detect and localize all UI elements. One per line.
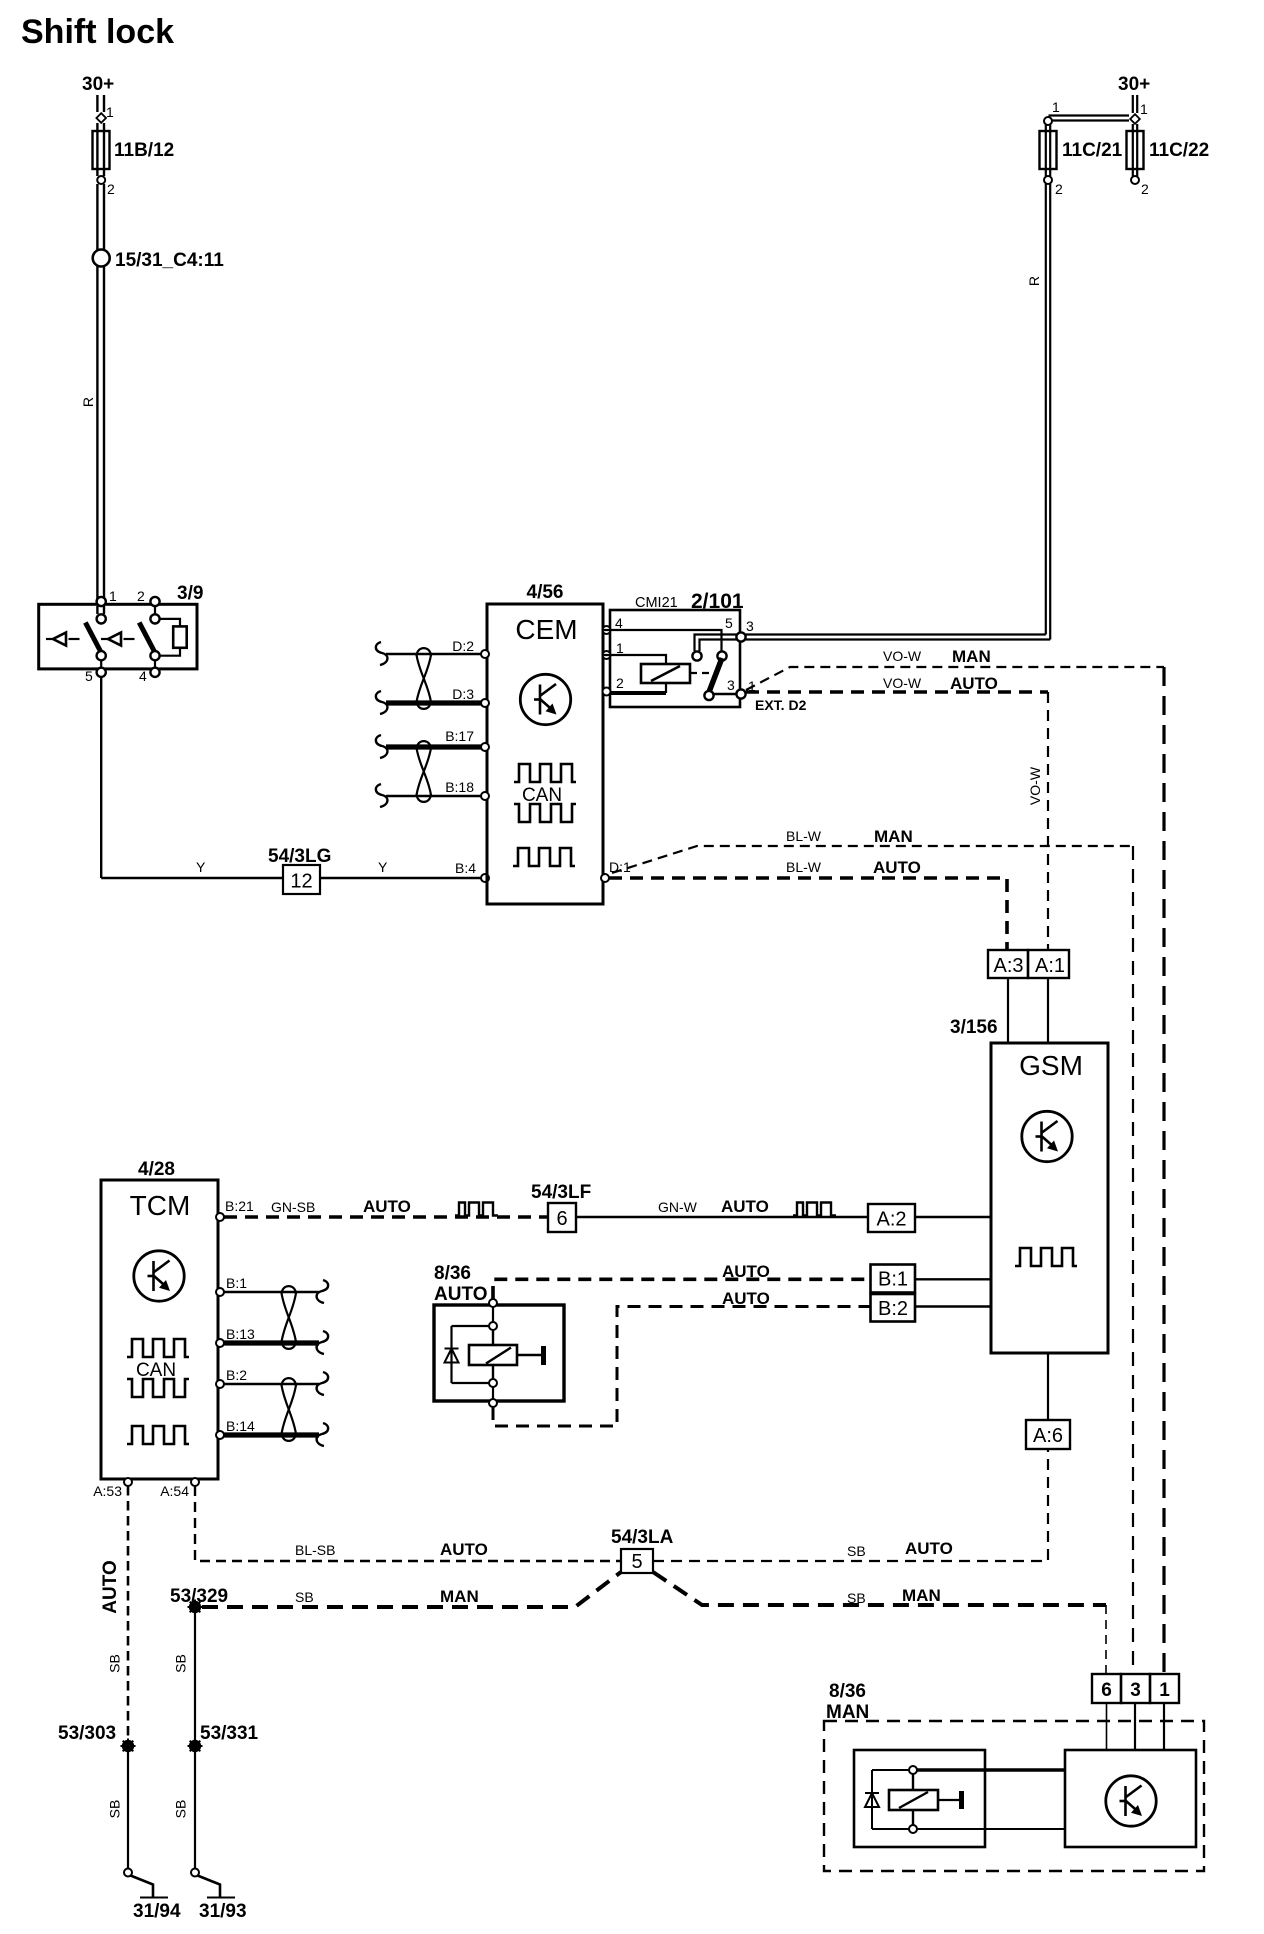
connector pin 1: [1150, 1674, 1179, 1703]
TCM pin B:2: [216, 1380, 224, 1388]
svg-text:4: 4: [139, 668, 147, 684]
svg-text:AUTO: AUTO: [721, 1197, 769, 1216]
svg-text:A:54: A:54: [160, 1483, 189, 1499]
wire B:18 twisted: [386, 795, 481, 798]
wire VO-W MAN vertical heavy: [1162, 667, 1165, 1674]
splice 53/331: [188, 1739, 203, 1754]
wire SB to ground right: [194, 1752, 196, 1869]
svg-text:12: 12: [290, 871, 312, 893]
relay coil 2/101: [641, 664, 690, 683]
plunger 8/36 MAN: [938, 1799, 959, 1801]
wire B:17 twisted thick: [386, 744, 481, 749]
relay box 8/36 MAN: [854, 1750, 985, 1847]
svg-text:6: 6: [556, 1208, 567, 1230]
coil bracket lower thick: [610, 691, 666, 695]
svg-text:A:1: A:1: [1035, 955, 1065, 977]
svg-text:AUTO: AUTO: [722, 1262, 770, 1281]
wire SB to ground left: [127, 1752, 129, 1869]
wire pin1 to solenoid: [1163, 1703, 1165, 1750]
svg-text:6: 6: [1101, 1680, 1112, 1701]
svg-text:11C/22: 11C/22: [1149, 140, 1209, 161]
wire GSM A:6 lead: [1047, 1353, 1049, 1420]
wire pin5 down: [100, 677, 102, 878]
CEM pin 1 junction: [603, 651, 611, 659]
wire fuse to splice: [97, 184, 104, 250]
connector B:2: [871, 1294, 916, 1322]
wire SB AUTO to A:6 dashed: [653, 1449, 1048, 1561]
pin 1 of 3/9: [97, 597, 106, 606]
TCM K symbol: [134, 1251, 184, 1301]
svg-text:2: 2: [137, 588, 145, 604]
CEM pin D:3: [481, 699, 489, 707]
svg-text:8/36: 8/36: [829, 1681, 866, 1702]
CEM pin 4 junction: [603, 626, 611, 634]
svg-text:D:2: D:2: [452, 638, 474, 654]
switch arm right 3/9: [139, 623, 155, 653]
svg-text:CMI21: CMI21: [635, 595, 678, 611]
wire MAN down to connector 6: [1105, 1605, 1107, 1674]
ground 31/93: [191, 1869, 235, 1898]
wire D:3 twisted thick: [386, 700, 481, 705]
connector A:3: [988, 950, 1028, 978]
svg-text:R: R: [1026, 276, 1042, 286]
TCM pin B:14: [216, 1431, 224, 1439]
rest contact circle: [692, 651, 701, 660]
fuse 11C/21: [1046, 125, 1050, 131]
svg-text:B:2: B:2: [226, 1367, 247, 1383]
wire A:3 to GSM: [1007, 978, 1009, 1043]
svg-text:AUTO: AUTO: [873, 858, 921, 877]
svg-text:R: R: [80, 397, 96, 407]
svg-text:A:2: A:2: [876, 1209, 906, 1231]
svg-text:BL-W: BL-W: [786, 828, 822, 844]
svg-text:TCM: TCM: [130, 1190, 191, 1221]
CEM pin B:18: [481, 792, 489, 800]
wire A:1 to GSM: [1047, 978, 1049, 1043]
contact lower left 3/9: [97, 651, 106, 660]
svg-text:B:1: B:1: [878, 1269, 908, 1291]
wire double horizontal 2/101 pin3 to R: [745, 635, 1050, 640]
relay coil 8/36 MAN: [912, 1774, 914, 1825]
svg-text:53/303: 53/303: [58, 1723, 116, 1744]
svg-text:15/31_C4:11: 15/31_C4:11: [115, 250, 224, 271]
svg-text:GN-W: GN-W: [658, 1199, 698, 1215]
CEM pin D:2: [481, 650, 489, 658]
svg-text:1: 1: [109, 588, 117, 604]
wire A:53 AUTO dashed down: [127, 1486, 130, 1740]
connector pin 6: [1092, 1674, 1121, 1703]
wire SB MAN dashed heavy right: [653, 1572, 1106, 1605]
svg-text:MAN: MAN: [902, 1586, 941, 1605]
splice 15/31_C4:11: [93, 250, 110, 267]
wire GN-W AUTO solid: [576, 1216, 868, 1218]
terminal 1 fuse 11C/21: [1044, 117, 1052, 125]
svg-text:2: 2: [616, 675, 624, 691]
relay coil 8/36 AUTO: [469, 1345, 517, 1365]
svg-text:3/156: 3/156: [950, 1017, 998, 1038]
connector A:1: [1028, 950, 1069, 978]
svg-text:GN-SB: GN-SB: [271, 1199, 315, 1215]
wire pin4 to switch top: [603, 630, 722, 651]
wire AUTO loop to B:2 dashed heavy: [493, 1307, 871, 1427]
terminal 2 fuse 11C/22: [1133, 169, 1137, 176]
pin 5 of 3/9: [100, 660, 102, 668]
contact upper right 3/9: [150, 614, 159, 623]
TCM pin A:53: [124, 1478, 132, 1486]
svg-text:4/28: 4/28: [138, 1159, 175, 1180]
wire GSM B:2 lead: [915, 1305, 991, 1307]
svg-text:Y: Y: [378, 859, 388, 875]
wire R right vertical double: [1046, 184, 1050, 640]
switch arm left 3/9: [85, 623, 101, 653]
2/101 right terminal 1 EXT. D2: [736, 689, 745, 698]
svg-text:AUTO: AUTO: [950, 674, 998, 693]
svg-text:2: 2: [1141, 181, 1149, 197]
svg-text:1: 1: [1052, 99, 1060, 115]
actuator arrow left: [46, 638, 53, 640]
TCM pin B:1: [216, 1288, 224, 1296]
svg-text:VO-W: VO-W: [883, 675, 922, 691]
wire relay to K box top thick: [917, 1768, 1065, 1771]
svg-text:A:6: A:6: [1033, 1425, 1063, 1447]
CEM pin B:17: [481, 743, 489, 751]
connector A:2: [868, 1204, 915, 1232]
svg-text:3: 3: [1130, 1680, 1141, 1701]
wire Y to CEM B:4: [320, 877, 481, 879]
svg-text:8/36: 8/36: [434, 1263, 471, 1284]
svg-text:54/3LF: 54/3LF: [531, 1182, 591, 1203]
svg-text:SB: SB: [847, 1590, 866, 1606]
svg-text:5: 5: [725, 615, 733, 631]
svg-text:2: 2: [107, 181, 115, 197]
svg-text:D:3: D:3: [452, 686, 474, 702]
terminal 2 of fuse 11B/12: [97, 169, 104, 176]
svg-text:VO-W: VO-W: [1027, 766, 1043, 805]
svg-text:3: 3: [727, 677, 735, 693]
svg-text:1: 1: [106, 104, 114, 120]
actuator arrow right: [101, 638, 108, 640]
svg-text:B:4: B:4: [455, 860, 476, 876]
svg-text:30+: 30+: [82, 74, 114, 95]
TCM pin B:21: [216, 1213, 224, 1221]
terminal 1 of fuse 11B/12: [96, 113, 106, 123]
svg-text:SB: SB: [295, 1589, 314, 1605]
svg-text:MAN: MAN: [874, 827, 913, 846]
pin B:4 terminal: [481, 874, 489, 882]
wire AUTO to B:1 dashed heavy: [493, 1279, 871, 1299]
TCM pin A:54: [191, 1478, 199, 1486]
svg-text:BL-SB: BL-SB: [295, 1542, 335, 1558]
connector pin 3: [1121, 1674, 1150, 1703]
relay terminals 8/36 MAN: [909, 1766, 917, 1774]
svg-text:3/9: 3/9: [177, 583, 203, 604]
svg-text:54/3LG: 54/3LG: [268, 846, 331, 867]
horizontal double wire to 11C/21: [1049, 116, 1130, 121]
pin 2 of 3/9: [150, 597, 159, 606]
wire B:14 twisted thick: [224, 1432, 319, 1437]
wire GSM A:2 lead: [915, 1216, 991, 1218]
svg-text:AUTO: AUTO: [363, 1197, 411, 1216]
svg-text:4/56: 4/56: [527, 582, 564, 603]
svg-text:B:13: B:13: [226, 1326, 255, 1342]
svg-text:SB: SB: [107, 1800, 123, 1819]
svg-text:3: 3: [746, 618, 754, 634]
pin 4 of 3/9: [154, 660, 156, 668]
coil bracket upper: [603, 655, 666, 693]
rest contact double wire from pin5: [695, 635, 741, 652]
svg-text:1: 1: [616, 640, 624, 656]
svg-text:B:1: B:1: [226, 1275, 247, 1291]
K symbol 8/36 MAN: [1106, 1776, 1156, 1826]
CEM K symbol: [520, 674, 570, 724]
svg-text:Shift lock: Shift lock: [21, 13, 174, 51]
wire B:1 twisted: [224, 1291, 319, 1294]
wire BL-W MAN vertical: [1132, 846, 1134, 1674]
svg-text:B:18: B:18: [445, 779, 474, 795]
switch lower contact: [704, 691, 713, 700]
K box 8/36 MAN: [1065, 1750, 1196, 1847]
wire GN-SB AUTO dashed: [224, 1215, 548, 1219]
svg-text:A:53: A:53: [93, 1483, 122, 1499]
svg-text:B:14: B:14: [226, 1418, 255, 1434]
control module CEM 4/56: [487, 604, 603, 904]
terminal 1 fuse 11C/22: [1130, 114, 1140, 124]
wire BL-W MAN dashed: [612, 846, 1133, 873]
svg-text:MAN: MAN: [440, 1587, 479, 1606]
svg-text:AUTO: AUTO: [100, 1560, 121, 1613]
svg-text:BL-W: BL-W: [786, 859, 822, 875]
wire pin1 to contact: [97, 606, 104, 614]
svg-text:1: 1: [1159, 1680, 1170, 1701]
svg-text:GSM: GSM: [1019, 1050, 1083, 1081]
svg-text:AUTO: AUTO: [722, 1289, 770, 1308]
connector A:6: [1026, 1420, 1070, 1449]
wire Y horizontal to splice 54/3LG: [101, 877, 283, 879]
diode branch 8/36 AUTO: [452, 1326, 490, 1383]
svg-text:AUTO: AUTO: [905, 1539, 953, 1558]
svg-text:31/93: 31/93: [199, 1901, 247, 1922]
svg-text:11C/21: 11C/21: [1062, 140, 1123, 161]
diode branch 8/36 MAN: [872, 1770, 909, 1829]
moving contact circle: [717, 651, 726, 660]
CEM pin 2 junction: [603, 688, 611, 696]
CEM CAN waves: [514, 764, 576, 782]
wire GSM B:1 lead: [915, 1278, 991, 1280]
svg-text:A:3: A:3: [993, 955, 1023, 977]
wire pin6 to solenoid: [1106, 1703, 1108, 1750]
wire pin2 to contact: [154, 605, 156, 615]
connector B:1: [871, 1265, 916, 1293]
2/101 right terminal 3: [736, 632, 745, 641]
svg-text:B:2: B:2: [878, 1298, 908, 1320]
contact lower right 3/9: [150, 651, 159, 660]
CEM pin D:1: [601, 874, 609, 882]
svg-text:VO-W: VO-W: [883, 648, 922, 664]
wire VO-W MAN dashed: [746, 667, 1164, 690]
resistor in 3/9: [160, 619, 181, 627]
relay module 2/101 CMI21: [610, 610, 740, 707]
wire R splice to 3/9: [97, 266, 104, 601]
svg-text:5: 5: [631, 1551, 642, 1573]
plunger 8/36 AUTO: [517, 1354, 541, 1356]
fuse 11C/22: [1133, 124, 1137, 131]
TCM pin B:13: [216, 1339, 224, 1347]
coil to bottom: [492, 1365, 494, 1379]
coil feed top: [492, 1307, 494, 1322]
svg-text:MAN: MAN: [952, 647, 991, 666]
svg-text:SB: SB: [107, 1654, 123, 1673]
svg-text:Y: Y: [196, 859, 206, 875]
svg-text:5: 5: [85, 668, 93, 684]
wire relay to K box bottom: [917, 1828, 1065, 1830]
wire BL-W AUTO dashed heavy: [609, 878, 1007, 950]
ground 31/94: [124, 1869, 168, 1898]
fuse 11B/12: [93, 131, 110, 169]
GSM square wave: [1015, 1248, 1077, 1266]
wire SB to 53/331: [194, 1613, 196, 1740]
svg-text:2: 2: [1055, 181, 1063, 197]
svg-text:11B/12: 11B/12: [114, 140, 174, 161]
svg-text:54/3LA: 54/3LA: [611, 1527, 674, 1548]
svg-text:1: 1: [1140, 101, 1148, 117]
svg-text:53/331: 53/331: [200, 1723, 259, 1744]
svg-text:30+: 30+: [1118, 74, 1150, 95]
GSM K symbol: [1022, 1111, 1072, 1161]
svg-text:EXT. D2: EXT. D2: [755, 697, 807, 713]
wire B:2 twisted: [224, 1383, 319, 1386]
svg-text:4: 4: [615, 615, 623, 631]
park switch 3/9: [39, 604, 197, 669]
wire pin3 to solenoid: [1134, 1703, 1136, 1750]
wire 30+ right down: [1133, 95, 1137, 113]
svg-text:SB: SB: [173, 1800, 189, 1819]
svg-text:SB: SB: [173, 1654, 189, 1673]
svg-text:2/101: 2/101: [691, 590, 744, 613]
wire SB MAN dashed heavy to 54/3LA: [202, 1572, 621, 1607]
contact upper left 3/9: [97, 614, 106, 623]
svg-text:AUTO: AUTO: [440, 1540, 488, 1559]
terminal 2 fuse 11C/21: [1046, 169, 1050, 176]
svg-text:AUTO: AUTO: [434, 1284, 487, 1305]
svg-text:CEM: CEM: [515, 614, 577, 645]
svg-text:B:21: B:21: [225, 1198, 254, 1214]
wire A:54 BL-SB AUTO dashed: [195, 1486, 621, 1561]
TCM CAN waves: [127, 1339, 189, 1357]
wire 30+ feed double line upper: [97, 95, 104, 112]
wire B:13 twisted thick: [224, 1340, 319, 1345]
svg-text:31/94: 31/94: [133, 1901, 181, 1922]
relay switch arm 2/101: [709, 658, 722, 692]
wire VO-W AUTO dashed heavy: [746, 690, 1048, 694]
mechanical link dashes: [690, 672, 714, 674]
wire to pin3: [713, 693, 737, 695]
terminal top 8/36 AUTO: [489, 1299, 497, 1307]
wire into fuse: [97, 123, 104, 131]
svg-text:SB: SB: [847, 1543, 866, 1559]
wire VO-W vertical to A:1: [1047, 692, 1049, 950]
wire D:2 twisted: [386, 653, 481, 656]
svg-text:B:17: B:17: [445, 728, 474, 744]
